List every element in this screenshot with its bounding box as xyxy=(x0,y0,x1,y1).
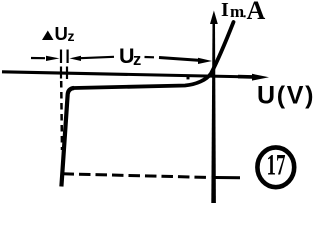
Uz dimension: left-pointing arrow at tick xyxy=(70,56,82,61)
svg-text:17: 17 xyxy=(267,149,286,182)
right tick crossing U axis xyxy=(66,67,68,80)
dashed current-level line xyxy=(63,174,212,178)
Uz label xyxy=(119,44,141,69)
delta-Uz label xyxy=(42,23,75,44)
I axis xyxy=(210,11,218,204)
Uz dimension dashes (left of label) xyxy=(80,57,114,58)
svg-text:I: I xyxy=(221,0,229,21)
svg-text:U(V): U(V) xyxy=(257,81,315,109)
U axis xyxy=(2,72,269,81)
ImA axis label xyxy=(221,0,266,25)
left tick crossing U axis xyxy=(60,67,62,79)
left dimension tick at x=61 xyxy=(60,50,62,64)
delta-Uz dimension: left dash and right-pointing arrow xyxy=(31,56,60,61)
breakdown knee and drop line xyxy=(61,88,74,187)
circled figure number 17 xyxy=(257,147,294,187)
current-level tick right of I axis xyxy=(216,176,241,179)
right dimension tick at x=67.6 xyxy=(66,50,68,64)
small tick below U axis near origin xyxy=(187,77,190,79)
diode characteristic curve: reverse flat part, knee, forward steep part xyxy=(74,22,234,88)
dashed vertical projection at breakdown voltage xyxy=(60,81,63,150)
svg-text:m: m xyxy=(230,2,244,21)
svg-text:A: A xyxy=(247,0,266,25)
svg-text:U: U xyxy=(55,23,68,44)
Uz dimension dashes (right of label) and right-pointing arrow xyxy=(145,57,213,64)
svg-text:z: z xyxy=(133,51,141,69)
svg-text:z: z xyxy=(68,28,75,44)
